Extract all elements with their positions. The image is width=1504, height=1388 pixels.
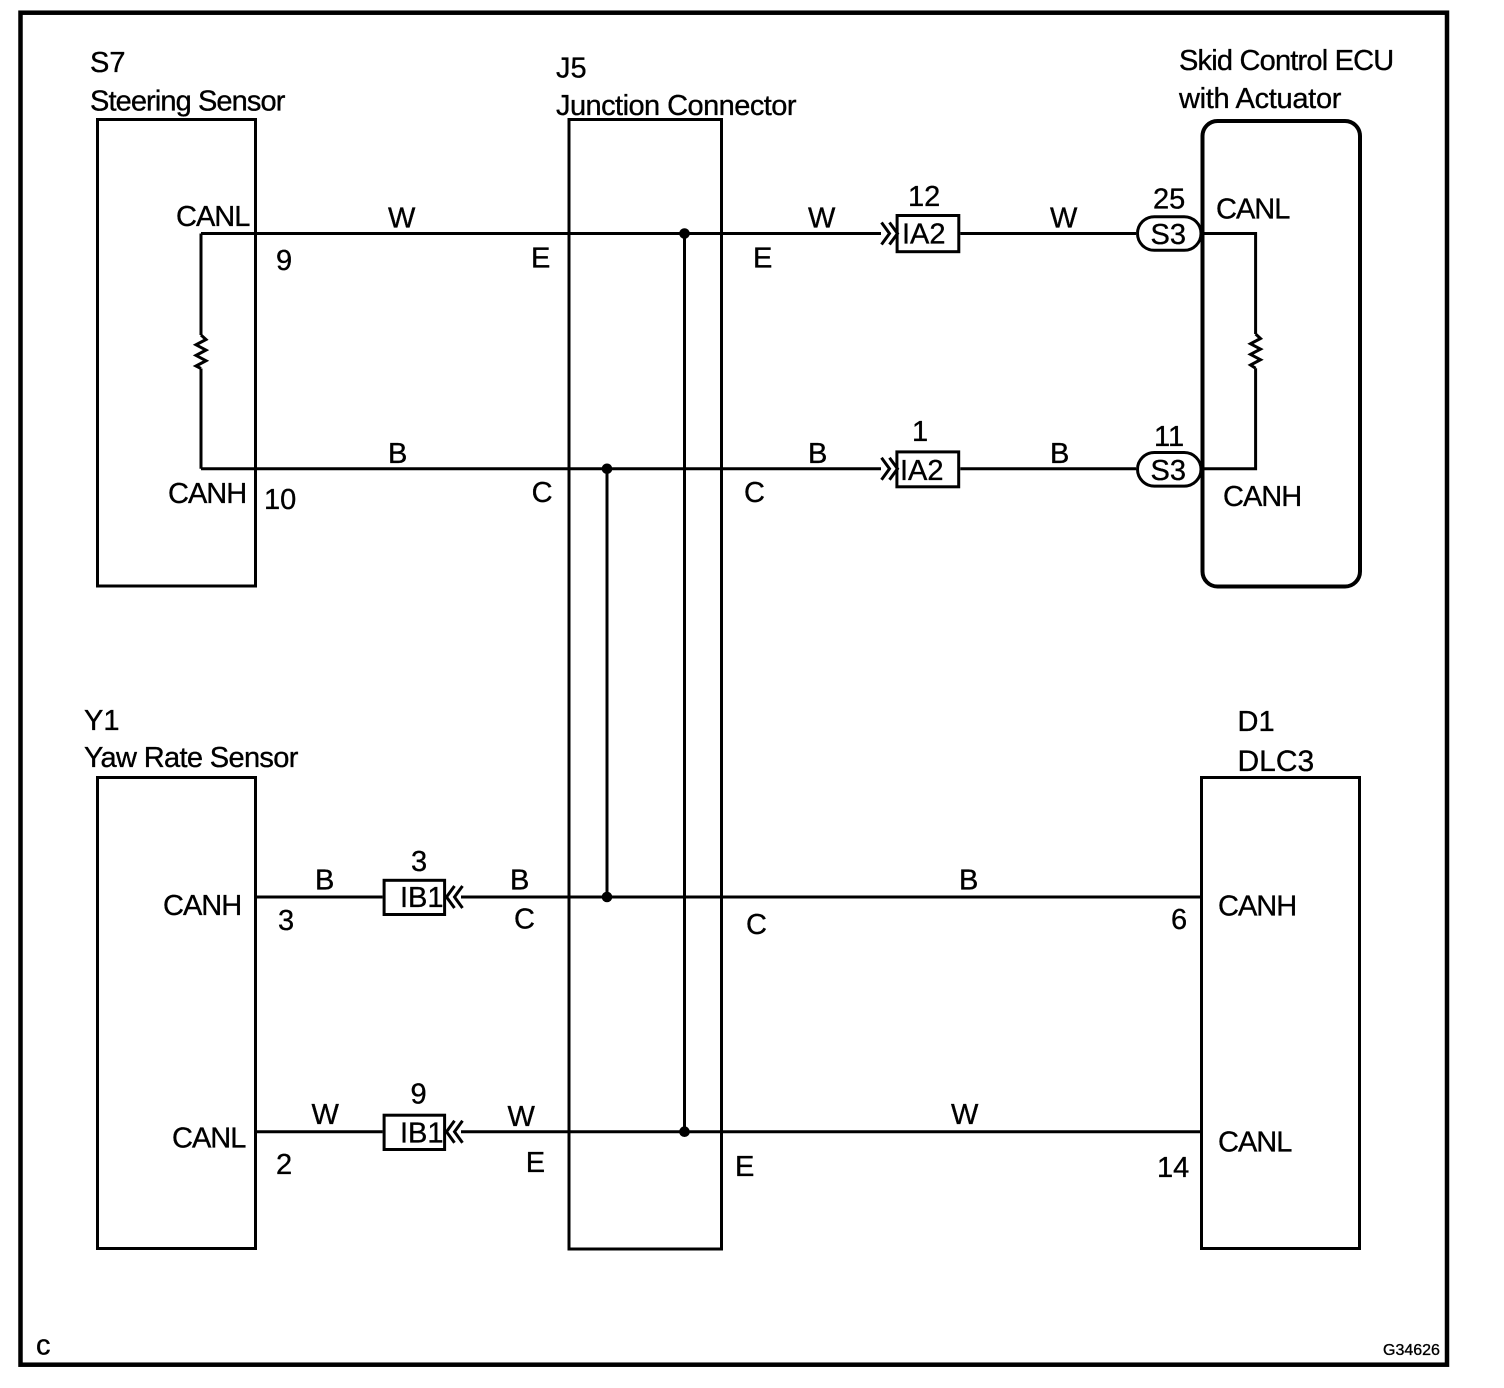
- svg-text:W: W: [808, 202, 836, 234]
- svg-text:3: 3: [411, 846, 427, 878]
- svg-text:IB1: IB1: [400, 1118, 444, 1150]
- connector S3 (pin 25): [1138, 217, 1202, 251]
- svg-text:25: 25: [1153, 184, 1185, 216]
- svg-text:DLC3: DLC3: [1238, 745, 1315, 778]
- svg-text:3: 3: [278, 905, 294, 937]
- svg-text:W: W: [1050, 203, 1078, 235]
- svg-text:CANH: CANH: [1218, 891, 1296, 923]
- svg-text:E: E: [531, 242, 550, 274]
- wire J5 internal bus (CANH): [606, 469, 609, 897]
- svg-text:E: E: [753, 242, 772, 274]
- connector D1 box: [1202, 778, 1360, 1249]
- connector S3 (pin 11): [1138, 453, 1202, 487]
- svg-text:D1: D1: [1238, 706, 1275, 738]
- junction dot on CANH bus at J5: [602, 892, 613, 903]
- wire J5 internal bus (CANL): [683, 234, 686, 1132]
- svg-text:9: 9: [276, 245, 292, 277]
- svg-text:S7: S7: [90, 47, 125, 79]
- resistor (ECU CAN terminating resistor): [1251, 334, 1261, 368]
- svg-text:Yaw Rate Sensor: Yaw Rate Sensor: [84, 742, 299, 774]
- svg-text:10: 10: [264, 484, 296, 516]
- svg-text:1: 1: [912, 416, 928, 448]
- svg-text:9: 9: [411, 1079, 427, 1111]
- svg-text:CANH: CANH: [168, 478, 246, 510]
- wire B: Y1 pin 3 to IB1: [256, 896, 383, 899]
- wire S7 internal CANL stub: [200, 234, 203, 336]
- wire CANL W: S7 pin 9 to IA2: [201, 232, 881, 235]
- svg-text:J5: J5: [556, 53, 587, 85]
- Skid Control ECU label: [1178, 45, 1393, 115]
- svg-text:B: B: [808, 438, 827, 470]
- connector J5 label: [556, 53, 797, 123]
- wire W: IA2 to S3 pin 25: [960, 232, 1136, 235]
- svg-text:W: W: [312, 1099, 340, 1131]
- svg-text:B: B: [388, 438, 407, 470]
- svg-text:CANH: CANH: [163, 890, 241, 922]
- connector IB1 (pin 3): [384, 880, 445, 914]
- svg-text:Skid Control ECU: Skid Control ECU: [1179, 45, 1393, 77]
- wire S7 internal CANH stub: [200, 369, 203, 469]
- svg-text:G34626: G34626: [1383, 1342, 1440, 1359]
- Skid Control ECU box: [1203, 121, 1361, 587]
- chevron into IA2 pin 12: [882, 223, 898, 245]
- svg-text:S3: S3: [1151, 219, 1186, 251]
- svg-text:B: B: [1050, 438, 1069, 470]
- svg-text:14: 14: [1157, 1152, 1189, 1184]
- svg-text:Y1: Y1: [84, 705, 119, 737]
- svg-text:2: 2: [276, 1149, 292, 1181]
- svg-text:B: B: [959, 865, 978, 897]
- svg-text:with Actuator: with Actuator: [1178, 83, 1342, 115]
- svg-text:E: E: [526, 1147, 545, 1179]
- junction dot on CANL at J5: [679, 228, 690, 239]
- svg-text:C: C: [746, 909, 767, 941]
- svg-text:CANL: CANL: [1216, 194, 1290, 226]
- svg-text:Junction Connector: Junction Connector: [556, 90, 797, 122]
- chevron into IA2 pin 1: [882, 458, 898, 480]
- svg-text:CANL: CANL: [176, 201, 250, 233]
- junction dot on CANL bus at J5: [679, 1126, 690, 1137]
- wire W: Y1 pin 2 to IB1: [256, 1130, 383, 1133]
- resistor (S7 CAN terminating resistor): [196, 335, 206, 369]
- wire CANH B: S7 pin 10 to IA2: [201, 467, 881, 470]
- wire ECU internal CANL: [1202, 234, 1256, 335]
- chevron into IB1 pin 9: [447, 1121, 463, 1143]
- connector Y1 label: [84, 705, 299, 774]
- svg-text:CANH: CANH: [1223, 481, 1301, 513]
- svg-text:C: C: [744, 477, 765, 509]
- svg-text:c: c: [36, 1330, 51, 1362]
- connector S7 box: [98, 120, 256, 587]
- svg-text:S3: S3: [1151, 455, 1186, 487]
- wire ECU internal CANH: [1202, 368, 1256, 469]
- junction connector J5 box: [569, 120, 722, 1250]
- svg-text:E: E: [735, 1151, 754, 1183]
- svg-text:IA2: IA2: [900, 455, 944, 487]
- wire W: IB1 to D1 pin 14: [461, 1130, 1201, 1133]
- svg-text:C: C: [532, 477, 553, 509]
- connector IA2 (pin 1): [897, 452, 959, 487]
- connector D1 label: [1238, 706, 1315, 778]
- connector IB1 (pin 9): [384, 1115, 445, 1149]
- svg-text:12: 12: [908, 181, 940, 213]
- connector Y1 box: [98, 778, 256, 1249]
- svg-text:W: W: [951, 1099, 979, 1131]
- connector S7 label: [90, 47, 286, 118]
- wire B: IB1 to D1 pin 6: [461, 896, 1201, 899]
- svg-text:B: B: [315, 865, 334, 897]
- svg-text:W: W: [388, 202, 416, 234]
- svg-text:B: B: [510, 865, 529, 897]
- svg-text:11: 11: [1154, 421, 1184, 453]
- svg-text:IA2: IA2: [902, 218, 946, 250]
- svg-text:IB1: IB1: [400, 882, 444, 914]
- svg-text:W: W: [508, 1101, 536, 1133]
- connector IA2 (pin 12): [897, 216, 959, 252]
- wire B: IA2 to S3 pin 11: [960, 467, 1136, 470]
- svg-text:C: C: [514, 904, 535, 936]
- chevron into IB1 pin 3: [447, 886, 463, 908]
- svg-text:Steering Sensor: Steering Sensor: [90, 86, 286, 118]
- svg-text:CANL: CANL: [1218, 1127, 1292, 1159]
- junction dot on CANH at J5: [602, 464, 613, 475]
- svg-text:6: 6: [1171, 904, 1187, 936]
- svg-text:CANL: CANL: [172, 1123, 246, 1155]
